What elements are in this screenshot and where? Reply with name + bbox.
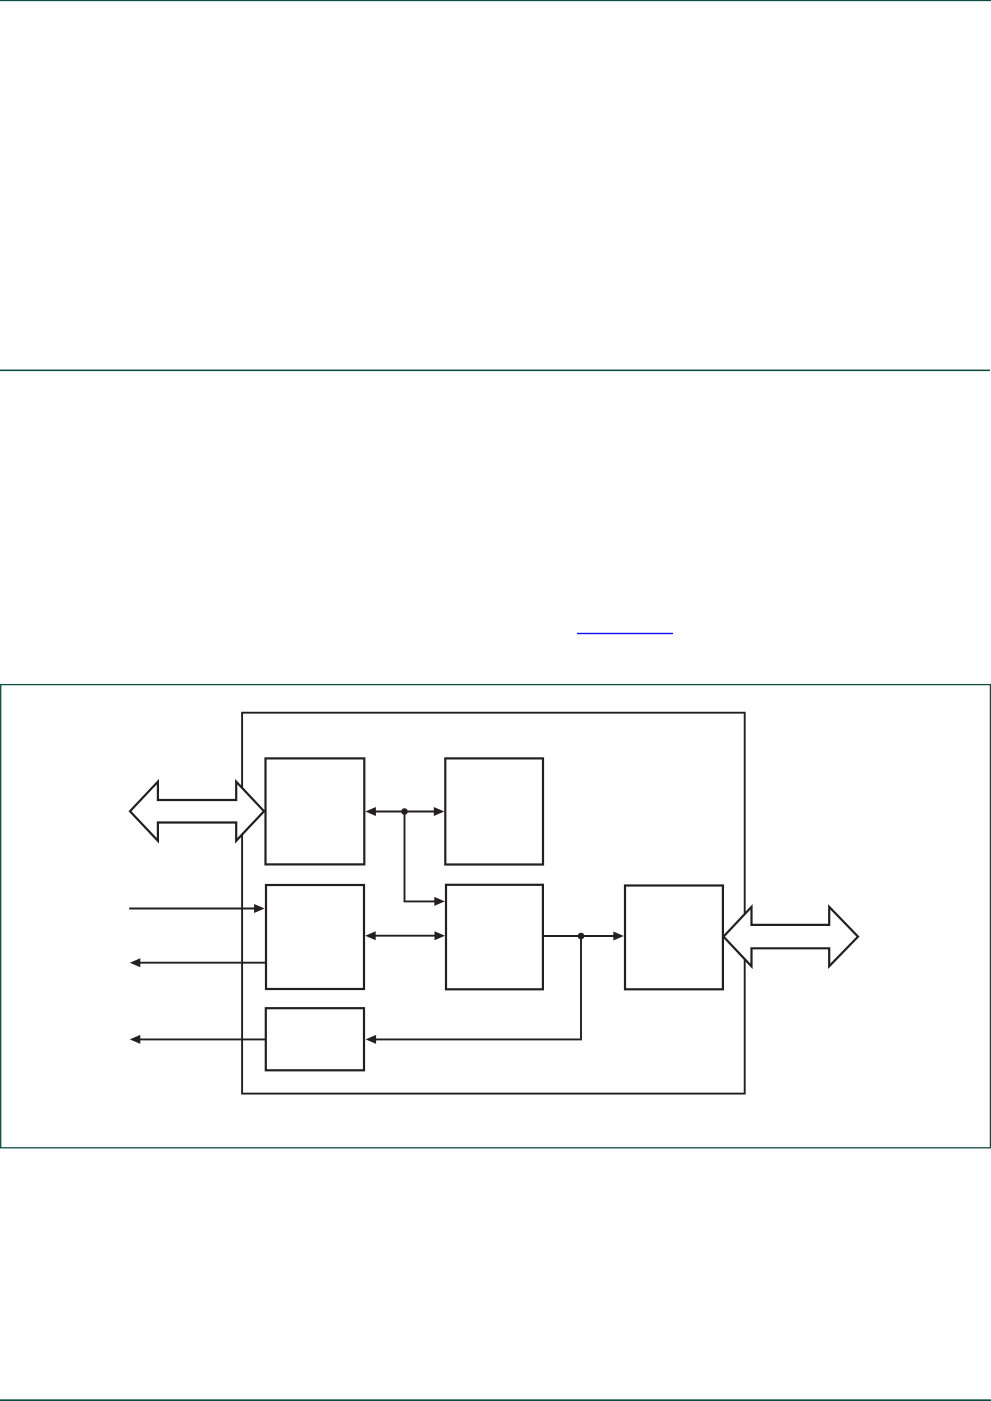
large bidirectional bus arrow (left, into B1) xyxy=(130,782,264,841)
wire B3-B4 bidirectional xyxy=(373,935,437,937)
figure frame (teal border) xyxy=(1,685,991,1148)
block B4 (mid-middle) xyxy=(446,885,543,990)
block B3 (mid-left) xyxy=(266,885,364,989)
arrowhead into B4 top-left xyxy=(434,897,445,906)
section rule (teal line under heading area) xyxy=(0,370,990,372)
arrowhead pointing left (B6 output) xyxy=(130,1035,141,1044)
block B1 (top-left) xyxy=(266,758,365,864)
arrowhead into B3 right edge xyxy=(365,931,376,940)
junction dot on wire B4-B5 xyxy=(578,933,585,940)
block B5 (right) xyxy=(625,886,723,990)
arrowhead into B1 right edge xyxy=(365,807,376,816)
block B6 (bottom-left small) xyxy=(266,1008,364,1070)
output wire from B3 to left xyxy=(140,962,267,964)
junction dot on wire B1-B2 xyxy=(401,808,408,815)
hyperlink underline (blue) xyxy=(577,633,673,634)
arrowhead into B5 left edge xyxy=(613,932,624,941)
output wire from B6 to left xyxy=(140,1038,266,1040)
arrowhead into B6 right edge xyxy=(366,1035,377,1044)
wire B1-B2 bidirectional xyxy=(373,811,437,813)
wire from junction down xyxy=(405,812,437,902)
block diagram outer boundary rectangle xyxy=(242,713,745,1094)
input wire into B3 xyxy=(129,908,256,910)
wire B4 to B5 xyxy=(543,935,615,937)
arrowhead into B3 left edge xyxy=(254,904,265,913)
arrowhead into B2 left edge xyxy=(434,807,445,816)
wire from junction down to B6 xyxy=(374,936,581,1039)
arrowhead into B4 left edge xyxy=(435,931,446,940)
header rule (top teal line) xyxy=(0,0,991,1)
block B2 (top-middle) xyxy=(445,758,543,864)
arrowhead pointing left (B3 output) xyxy=(130,958,141,967)
footer rule (bottom teal line) xyxy=(0,1399,991,1401)
large bidirectional bus arrow (right, from B5) xyxy=(724,907,859,966)
